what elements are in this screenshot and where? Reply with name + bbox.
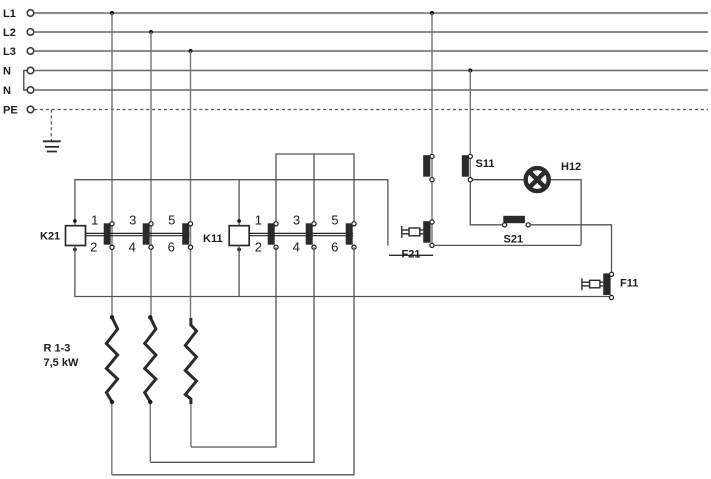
wire PE to ground (dashed) [50, 110, 52, 142]
lamp H12 [526, 168, 549, 191]
node K21 coil bottom [73, 248, 77, 252]
svg-text:PE: PE [3, 105, 18, 117]
label F21 line [389, 254, 433, 256]
wire L1 tap down to F21 contacts [431, 13, 433, 245]
wire N lower rail [34, 89, 708, 91]
svg-text:3: 3 [129, 212, 136, 227]
svg-text:6: 6 [331, 239, 338, 254]
resistor R1 [106, 315, 117, 404]
resistor R3 [185, 318, 196, 404]
contact K21 5-6 [182, 222, 192, 250]
wire N-N bridge [24, 71, 27, 91]
svg-text:R 1-3: R 1-3 [44, 343, 71, 355]
wire K11 contact 3 bottom to rail [150, 247, 314, 462]
svg-text:H12: H12 [561, 161, 581, 173]
terminal N lower [27, 87, 34, 94]
node K21 coil top [73, 219, 77, 223]
contact K21 3-4 [143, 222, 153, 250]
svg-text:K21: K21 [40, 231, 60, 243]
svg-text:7,5 kW: 7,5 kW [44, 357, 79, 369]
svg-text:1: 1 [255, 212, 262, 227]
overload contact F11 [603, 272, 613, 299]
svg-text:2: 2 [90, 239, 97, 254]
wire S21 to F11 [530, 225, 611, 272]
coil K11 [229, 226, 249, 246]
switch S11 [462, 154, 473, 182]
wire R2 bottom drop [149, 402, 151, 462]
wire N tap down to S11 [469, 71, 471, 180]
node K11 coil bottom [237, 248, 241, 252]
wire K11 coil top drop [238, 180, 240, 226]
svg-text:K11: K11 [203, 233, 223, 245]
node L3 tap (power) [188, 49, 192, 53]
contact F21 upper (aux) [423, 154, 434, 182]
contact K21 1-2 [104, 222, 114, 250]
wire K11 contact3 top drop [313, 154, 315, 224]
svg-text:6: 6 [168, 239, 175, 254]
wire PE rail (dashed) [34, 109, 708, 111]
svg-text:L2: L2 [3, 27, 16, 39]
svg-text:N: N [3, 66, 11, 78]
svg-text:5: 5 [331, 212, 338, 227]
svg-text:S21: S21 [504, 234, 524, 246]
svg-text:5: 5 [168, 212, 175, 227]
actuator F11 [582, 278, 603, 290]
wire F21 bottom to lamp branch [434, 244, 581, 246]
wire K11 coil bottom drop [238, 246, 240, 297]
terminal L1 [27, 10, 34, 17]
node L2 tap (power) [149, 30, 153, 34]
wire N upper rail [34, 70, 708, 72]
linkage K11 [249, 233, 353, 235]
svg-text:1: 1 [91, 212, 98, 227]
svg-text:L1: L1 [3, 8, 16, 20]
wire L1 to K21 contact 1 and on to R1 [111, 13, 113, 318]
node L1 tap (control) [430, 11, 434, 15]
svg-text:S11: S11 [476, 158, 495, 170]
node N tap (control) [468, 68, 472, 72]
wire R3 bottom drop [190, 404, 192, 447]
wire L1 rail [34, 12, 708, 14]
terminal PE [27, 106, 34, 113]
svg-text:F11: F11 [620, 278, 638, 290]
wire K11 star bridge [276, 154, 354, 224]
svg-text:4: 4 [293, 239, 300, 254]
svg-text:F21: F21 [402, 249, 421, 261]
wire K21 coil bottom to bottom control rail [75, 246, 610, 297]
wire K21 coil top to control rail [75, 180, 388, 246]
wire L3 to K21 contact 5 and on to R3 [190, 51, 192, 318]
wire lamp H12 to corner [548, 180, 581, 245]
node K11 coil top [237, 219, 241, 223]
contact K11 3-4 [306, 222, 316, 250]
terminal L2 [27, 29, 34, 36]
svg-text:3: 3 [293, 212, 300, 227]
wire R1 bottom drop [111, 402, 113, 475]
wire L2 to K21 contact 3 and on to R2 [150, 32, 152, 318]
svg-text:L3: L3 [3, 46, 16, 58]
actuator F21 [402, 226, 423, 238]
contact K11 1-2 [268, 222, 278, 250]
terminal N upper [27, 67, 34, 74]
svg-text:4: 4 [129, 239, 136, 254]
wire S11 down to S21 [470, 182, 502, 225]
svg-text:N: N [3, 85, 11, 97]
terminal L3 [27, 48, 34, 55]
switch S21 [503, 216, 531, 227]
contact K11 5-6 [346, 222, 356, 250]
svg-text:2: 2 [255, 239, 262, 254]
wire S11 to lamp H12 [472, 179, 526, 181]
node L1 tap (power) [110, 11, 114, 15]
linkage K21 [86, 233, 190, 235]
overload contact F21 [423, 220, 434, 248]
ground [43, 141, 61, 151]
wire K11 contact 5 bottom to rail [112, 247, 354, 475]
wire L3 rail [34, 50, 708, 52]
resistor R2 [145, 315, 156, 404]
coil K21 [66, 226, 86, 246]
wire K11 contact 1 bottom to rail [191, 247, 276, 447]
wire L2 rail [34, 31, 708, 33]
